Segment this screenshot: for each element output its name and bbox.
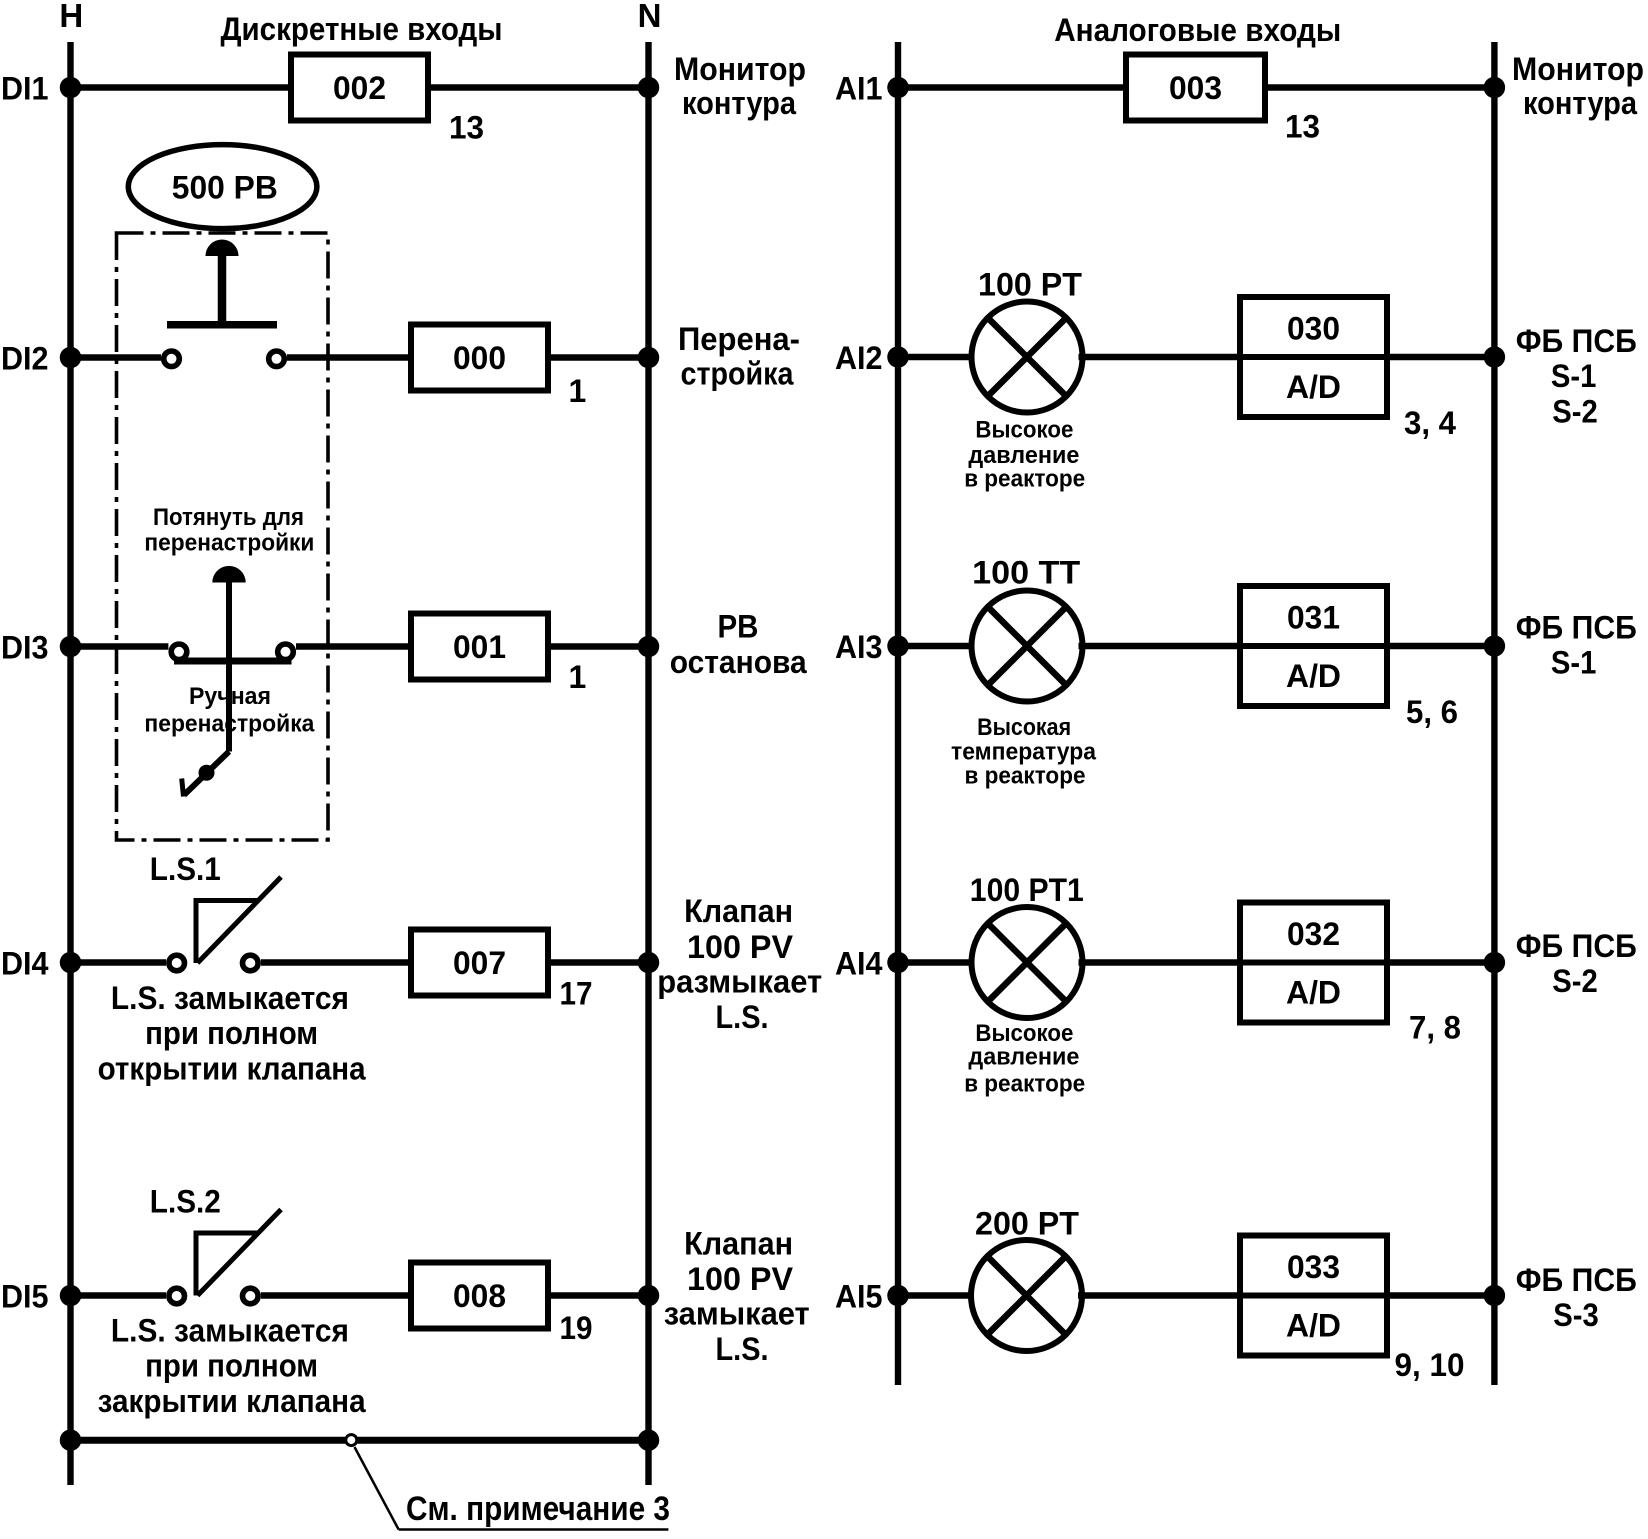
svg-text:L.S. замыкается: L.S. замыкается [111,980,349,1016]
rail N [645,42,651,1485]
wire DI1 left [71,84,292,90]
junction DI1 rail H [60,77,82,99]
contact terminal left DI2 [164,351,180,367]
rail H [67,42,73,1485]
svg-text:при полном: при полном [145,1015,318,1051]
svg-text:S-3: S-3 [1553,1297,1599,1333]
wire AI2 transmitter to A/D [1079,354,1241,360]
callout leader [355,1447,399,1530]
wire DI2 right [548,354,649,360]
contact terminal left DI4 [169,955,185,971]
wire AI5 right [1387,1292,1494,1298]
A/D converter block 030 [1240,297,1387,417]
svg-text:L.S. замыкается: L.S. замыкается [111,1313,349,1349]
svg-text:A/D: A/D [1286,1308,1341,1344]
wire DI3 to contact [71,643,169,649]
svg-text:РВ: РВ [718,609,759,645]
junction AI2 right [1484,346,1506,368]
wire DI5 contact to block [261,1292,411,1298]
svg-text:L.S.1: L.S.1 [150,851,221,887]
svg-text:100 PT: 100 PT [978,267,1082,303]
svg-text:См. примечание 3: См. примечание 3 [406,1490,670,1528]
junction AI3 right [1484,635,1506,657]
contact terminal right DI2 [269,351,285,367]
svg-text:перенастройки: перенастройки [144,530,314,557]
svg-text:ФБ ПСБ: ФБ ПСБ [1516,928,1637,964]
junction AI1 right [1484,77,1506,99]
svg-text:в реакторе: в реакторе [965,763,1086,790]
contact terminal right DI3 [278,644,294,660]
transmitter 100 TT [972,591,1083,702]
svg-text:температура: температура [951,739,1096,766]
wire DI2 contact to block [287,354,411,360]
svg-text:размыкает: размыкает [657,964,822,1000]
coil block 001 [411,614,548,680]
svg-text:100 PT1: 100 PT1 [970,872,1084,908]
svg-text:001: 001 [453,629,506,665]
svg-text:перенастройка: перенастройка [144,711,314,738]
junction AI4 right [1484,952,1506,974]
wire AI4 right [1387,959,1494,965]
junction DI2 rail H [60,347,82,369]
svg-text:закрытии клапана: закрытии клапана [98,1383,366,1419]
svg-text:Высокое: Высокое [975,417,1073,444]
svg-text:в реакторе: в реакторе [964,1071,1085,1098]
svg-text:Монитор: Монитор [1512,51,1644,87]
manual override lever with arrow [184,752,229,796]
manual pull actuator (DI3) [212,566,245,583]
svg-text:9, 10: 9, 10 [1395,1347,1465,1383]
junction AI1 left [887,77,909,99]
svg-text:A/D: A/D [1286,658,1341,694]
wire AI2 right [1387,354,1494,360]
A/D converter block 032 [1240,903,1387,1023]
svg-text:контура: контура [682,85,796,121]
svg-text:AI4: AI4 [835,945,883,981]
wire AI1 right [1265,84,1494,90]
svg-text:S-2: S-2 [1552,963,1598,999]
svg-text:100 TT: 100 TT [972,554,1080,590]
wire DI5 to contact [71,1292,167,1298]
wire AI1 left [898,84,1126,90]
svg-text:AI3: AI3 [835,629,883,665]
svg-text:стройка: стройка [681,356,794,392]
svg-text:032: 032 [1287,916,1340,952]
svg-text:Потянуть для: Потянуть для [153,504,304,531]
svg-text:Клапан: Клапан [684,893,793,929]
wire AI4 transmitter to A/D [1079,959,1241,965]
contact terminal left DI3 [171,644,187,660]
svg-text:A/D: A/D [1286,369,1341,405]
junction AI5 left [887,1285,909,1307]
transmitter 100 PT1 [972,907,1083,1018]
svg-text:L.S.: L.S. [716,999,769,1035]
svg-text:030: 030 [1287,311,1340,347]
bottom tie wire [71,1437,649,1444]
svg-text:200 PT: 200 PT [975,1206,1079,1242]
svg-text:13: 13 [1285,109,1320,145]
wire DI3 contact to block [296,643,411,649]
transmitter 100 PT [972,302,1083,413]
coil block 007 [411,930,548,996]
junction AI4 left [887,952,909,974]
junction AI2 left [887,346,909,368]
svg-text:открытии клапана: открытии клапана [98,1050,366,1086]
svg-text:замыкает: замыкает [664,1296,810,1332]
wire AI5 transmitter to A/D [1078,1292,1240,1298]
svg-text:ФБ ПСБ: ФБ ПСБ [1516,1262,1637,1298]
svg-text:DI5: DI5 [1,1278,49,1314]
analog left rail [895,42,901,1385]
A/D converter block 033 [1240,1236,1387,1356]
svg-text:ФБ ПСБ: ФБ ПСБ [1516,610,1637,646]
svg-text:AI1: AI1 [835,70,883,106]
svg-text:DI3: DI3 [1,629,49,665]
transmitter 200 PT [971,1240,1082,1351]
wire AI4 to transmitter [898,959,976,965]
svg-text:19: 19 [560,1310,593,1346]
limit switch L.S.1 symbol [194,898,199,963]
svg-text:003: 003 [1169,70,1222,106]
closed contact bridge DI3 [174,658,292,665]
svg-text:N: N [638,0,662,34]
junction AI5 right [1484,1285,1506,1307]
wire AI5 to transmitter [898,1292,975,1298]
svg-text:500 PB: 500 PB [172,170,278,206]
junction DI3 rail N [638,636,660,658]
svg-text:при полном: при полном [145,1348,318,1384]
coil block 000 [411,325,548,391]
svg-text:100 PV: 100 PV [687,929,794,965]
wire DI5 right [548,1292,649,1298]
wire DI3 right [548,643,649,649]
callout node on bottom wire [346,1435,357,1446]
balloon 500 PB [128,145,317,229]
wire AI2 to transmitter [898,354,976,360]
svg-text:DI2: DI2 [1,340,49,376]
svg-text:3, 4: 3, 4 [1404,405,1456,441]
svg-text:AI2: AI2 [835,340,883,376]
svg-text:Перена-: Перена- [678,321,800,357]
svg-text:1: 1 [569,659,587,695]
svg-text:AI5: AI5 [835,1278,883,1314]
coil block 003 [1126,55,1265,121]
svg-text:S-2: S-2 [1552,393,1598,429]
svg-text:DI4: DI4 [1,945,49,981]
svg-text:L.S.: L.S. [716,1331,769,1367]
wire DI1 right [428,84,649,90]
svg-text:DI1: DI1 [1,70,49,106]
svg-text:Монитор: Монитор [674,51,806,87]
A/D converter block 031 [1240,586,1387,706]
svg-text:1: 1 [569,373,587,409]
junction bottom rail N [638,1429,660,1451]
junction DI2 rail N [638,347,660,369]
svg-text:A/D: A/D [1286,975,1341,1011]
wire AI3 transmitter to A/D [1079,643,1241,649]
junction DI4 rail H [60,952,82,974]
wire DI4 to contact [71,959,167,965]
svg-text:контура: контура [1523,85,1637,121]
svg-text:давление: давление [968,1043,1079,1070]
svg-text:S-1: S-1 [1551,645,1597,681]
svg-text:Аналоговые входы: Аналоговые входы [1054,12,1341,48]
svg-text:L.S.2: L.S.2 [150,1184,221,1220]
svg-text:008: 008 [453,1278,506,1314]
coil block 002 [291,55,428,121]
wire DI4 right [548,959,649,965]
svg-text:13: 13 [449,109,484,145]
contact terminal right DI5 [243,1288,259,1304]
limit switch L.S.2 symbol [194,1231,199,1296]
svg-text:5, 6: 5, 6 [1406,694,1458,730]
svg-text:в реакторе: в реакторе [964,466,1085,493]
svg-text:S-1: S-1 [1551,358,1597,394]
svg-text:Ручная: Ручная [189,683,271,710]
coil block 008 [411,1263,548,1329]
junction DI5 rail H [60,1285,82,1307]
wire AI3 to transmitter [898,643,976,649]
svg-text:002: 002 [333,70,386,106]
junction bottom rail H [60,1429,82,1451]
junction DI5 rail N [638,1285,660,1307]
analog right rail [1491,42,1497,1385]
contact terminal left DI5 [169,1288,185,1304]
wire AI3 right [1387,643,1494,649]
svg-text:007: 007 [453,945,506,981]
svg-text:100 PV: 100 PV [687,1261,794,1297]
svg-text:7, 8: 7, 8 [1409,1010,1461,1046]
svg-text:000: 000 [453,340,506,376]
svg-text:H: H [59,0,83,34]
pushbutton actuator 500 PB (DI2) [206,240,239,257]
junction DI1 rail N [638,77,660,99]
svg-text:ФБ ПСБ: ФБ ПСБ [1516,323,1637,359]
wire DI4 contact to block [261,959,411,965]
junction AI3 left [887,635,909,657]
svg-text:031: 031 [1287,600,1340,636]
svg-text:033: 033 [1287,1249,1340,1285]
enclosure boundary dash-dot [117,233,329,840]
junction DI4 rail N [638,952,660,974]
junction DI3 rail H [60,636,82,658]
contact terminal right DI4 [243,955,259,971]
svg-text:Высокая: Высокая [977,714,1071,741]
svg-text:Клапан: Клапан [684,1225,793,1261]
svg-text:Дискретные входы: Дискретные входы [221,11,503,47]
svg-text:останова: останова [670,644,807,680]
wire DI2 to contact [71,354,162,360]
svg-text:17: 17 [560,976,593,1012]
